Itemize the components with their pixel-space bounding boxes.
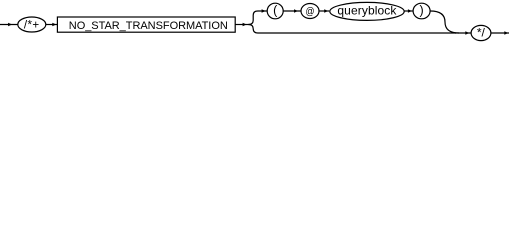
wire: entry line <box>0 24 18 26</box>
svg-text:): ) <box>420 3 424 17</box>
wire: box exit <box>235 24 250 26</box>
terminal ( <box>267 3 283 19</box>
svg-text:NO_STAR_TRANSFORMATION: NO_STAR_TRANSFORMATION <box>69 20 228 32</box>
arrowhead before ( <box>262 9 266 12</box>
wire: exit line <box>491 32 509 34</box>
nonterminal queryblock <box>330 2 404 20</box>
arrowhead before */ <box>465 31 469 34</box>
arrowhead before box <box>52 23 56 26</box>
svg-text:/*+: /*+ <box>24 19 39 32</box>
svg-text:@: @ <box>306 6 315 17</box>
wire: ) merge down to bypass <box>430 11 459 33</box>
wire: branch down bypass <box>249 25 457 34</box>
arrowhead exit <box>504 31 508 34</box>
wire: merge to terminal <box>455 32 471 34</box>
wire: @ to queryblock <box>319 10 329 12</box>
arrowhead before @ <box>294 9 298 12</box>
svg-text:queryblock: queryblock <box>337 4 397 18</box>
terminal */ <box>471 25 491 40</box>
terminal @ <box>301 4 319 19</box>
arrowhead before ) <box>408 9 412 12</box>
wire: /*+ to box <box>46 24 58 26</box>
wire: queryblock to ) <box>404 10 413 12</box>
svg-text:(: ( <box>273 3 278 17</box>
arrowhead before queryblock <box>324 9 328 12</box>
svg-text:*/: */ <box>477 25 486 39</box>
wire: branch up to optional row <box>249 11 268 25</box>
terminal ) <box>413 3 430 19</box>
arrowhead entry <box>8 23 12 26</box>
keyword box NO_STAR_TRANSFORMATION <box>57 17 235 32</box>
terminal /*+ <box>18 17 46 32</box>
arrowhead after box <box>243 23 247 26</box>
wire: ( to @ <box>283 10 301 12</box>
